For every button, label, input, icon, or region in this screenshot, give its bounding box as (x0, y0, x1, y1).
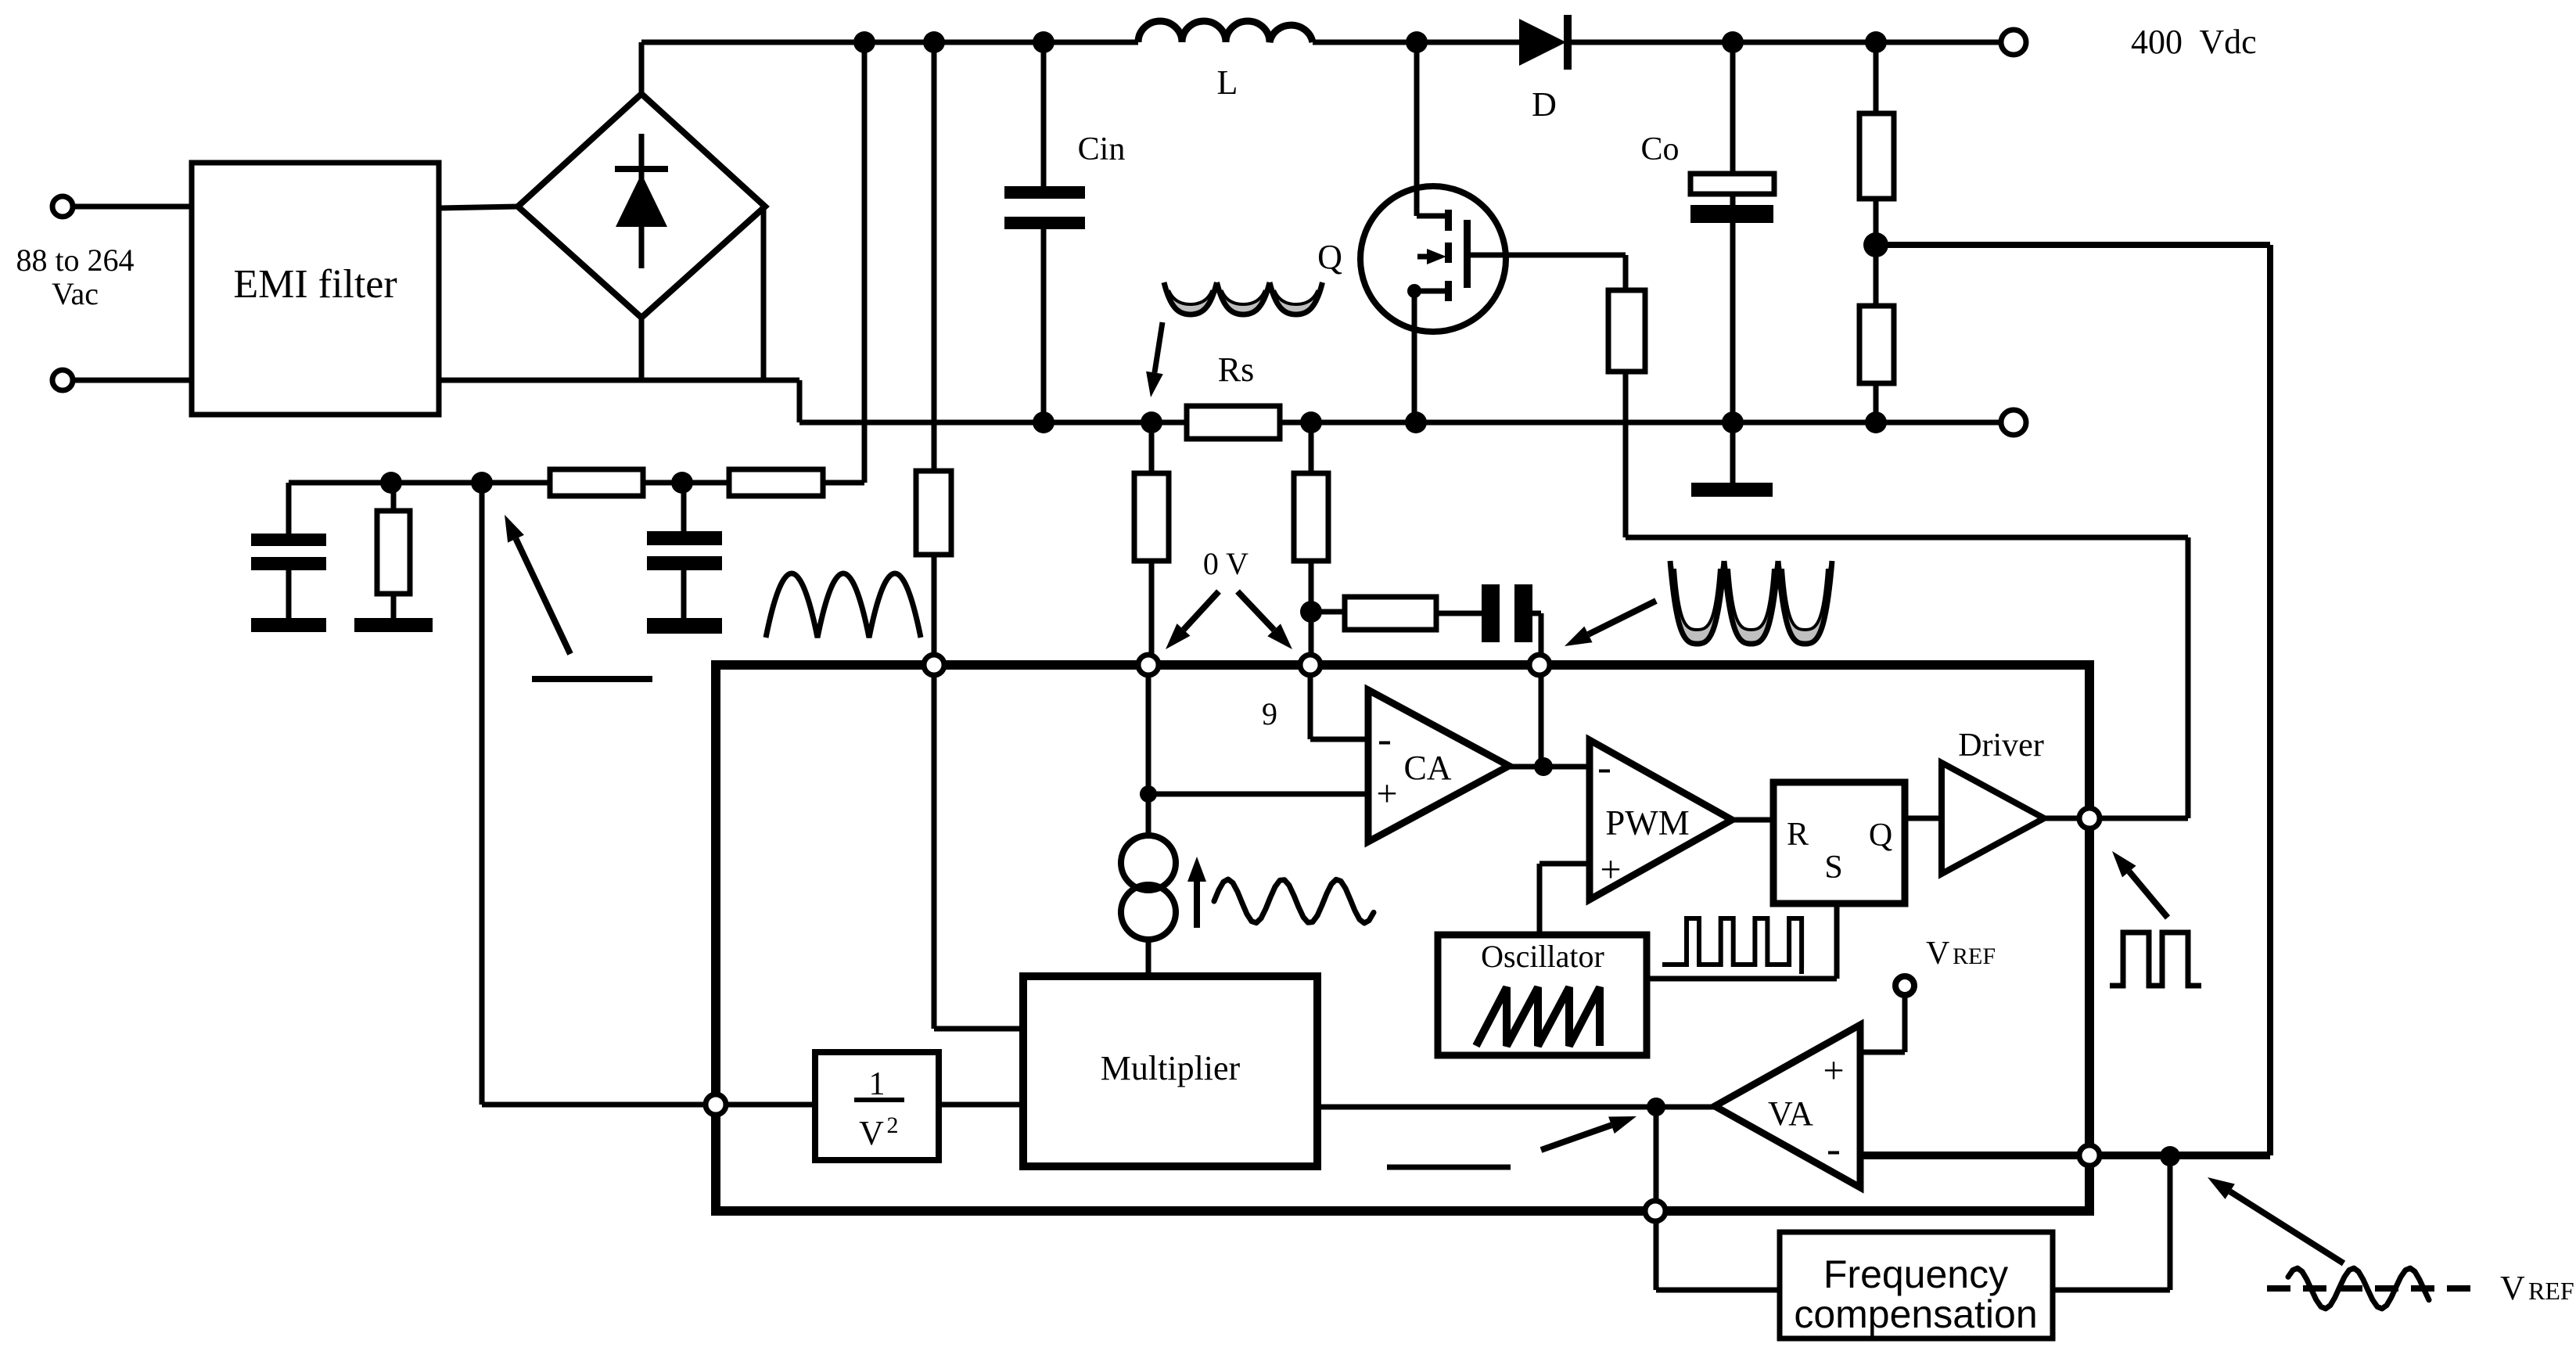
svg-text:1: 1 (869, 1066, 886, 1102)
svg-text:0 V: 0 V (1203, 546, 1248, 581)
svg-text:2: 2 (887, 1112, 899, 1138)
svg-text:+: + (1823, 1050, 1844, 1091)
svg-text:PWM: PWM (1605, 803, 1690, 843)
svg-text:Vac: Vac (52, 276, 99, 311)
svg-text:Q: Q (1317, 238, 1342, 276)
svg-text:Driver: Driver (1958, 728, 2044, 764)
svg-text:Q: Q (1869, 817, 1892, 853)
svg-text:Oscillator: Oscillator (1481, 939, 1604, 974)
svg-text:VA: VA (1768, 1094, 1813, 1133)
svg-text:compensation: compensation (1794, 1292, 2037, 1336)
svg-text:400: 400 (2131, 23, 2183, 61)
svg-text:L: L (1217, 63, 1238, 102)
svg-text:-: - (1827, 1125, 1841, 1172)
svg-text:V: V (859, 1114, 884, 1152)
svg-text:Cin: Cin (1078, 131, 1126, 167)
svg-text:EMI filter: EMI filter (233, 262, 397, 307)
svg-text:9: 9 (1262, 696, 1277, 731)
svg-text:CA: CA (1403, 749, 1451, 787)
svg-text:V: V (2500, 1269, 2525, 1307)
svg-text:88 to 264: 88 to 264 (16, 243, 134, 278)
svg-text:Rs: Rs (1218, 350, 1254, 389)
svg-text:+: + (1376, 773, 1397, 814)
svg-text:V: V (1926, 936, 1949, 972)
svg-text:-: - (1597, 743, 1611, 790)
svg-text:D: D (1532, 85, 1557, 124)
svg-text:-: - (1378, 715, 1392, 762)
svg-text:REF: REF (1953, 943, 1996, 969)
svg-text:Vdc: Vdc (2199, 23, 2256, 61)
svg-text:Multiplier: Multiplier (1101, 1049, 1241, 1087)
svg-text:S: S (1824, 850, 1842, 886)
svg-text:Co: Co (1640, 131, 1679, 167)
svg-text:+: + (1600, 849, 1621, 890)
svg-text:R: R (1787, 817, 1809, 853)
svg-text:REF: REF (2528, 1277, 2574, 1305)
svg-text:Frequency: Frequency (1823, 1252, 2008, 1296)
